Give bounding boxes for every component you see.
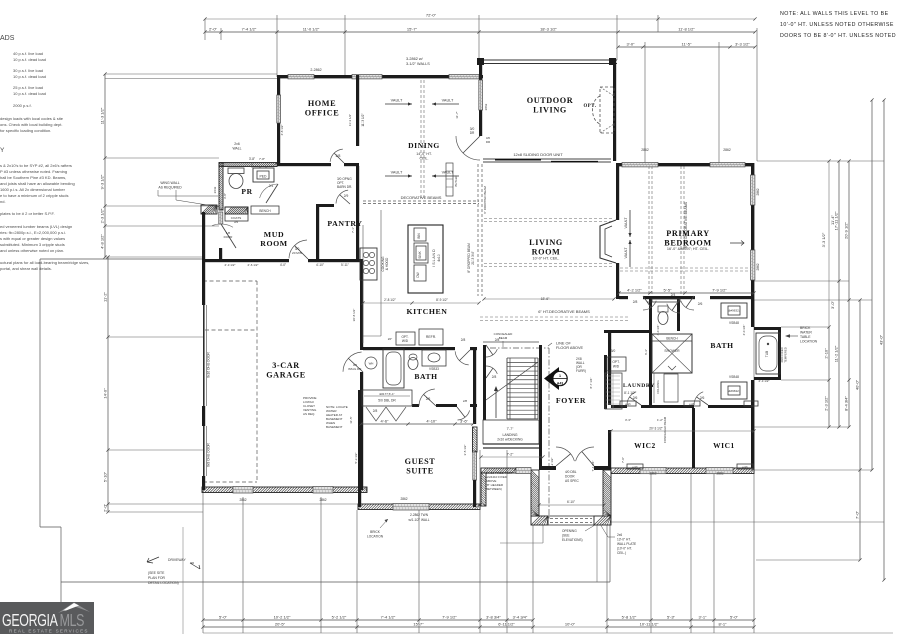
svg-text:2862: 2862 [723, 148, 731, 152]
svg-text:3'-0": 3'-0" [830, 300, 835, 309]
svg-text:72'-0": 72'-0" [426, 13, 437, 18]
svg-text:8'-4 3/4": 8'-4 3/4" [844, 396, 849, 411]
svg-text:KITCHEN: KITCHEN [406, 307, 447, 316]
svg-text:20'-5": 20'-5" [275, 622, 286, 627]
svg-text:2'-3 1/2": 2'-3 1/2" [225, 263, 236, 267]
svg-text:portal, and shear wall details: portal, and shear wall details. [0, 266, 52, 271]
svg-text:DINING: DINING [408, 141, 440, 150]
svg-text:LOCATION: LOCATION [367, 535, 384, 539]
svg-text:5'-0": 5'-0" [730, 615, 739, 620]
svg-text:7'-9 1/2": 7'-9 1/2" [712, 288, 727, 293]
svg-text:10'-11 1/2": 10'-11 1/2" [640, 622, 659, 627]
svg-text:(SEE SITE: (SEE SITE [148, 571, 165, 575]
svg-text:2'-3 1/2": 2'-3 1/2" [100, 208, 105, 223]
svg-text:DETAIL LOCATION): DETAIL LOCATION) [148, 581, 179, 585]
svg-text:2862: 2862 [400, 497, 407, 501]
svg-text:nd.: nd. [0, 199, 6, 204]
svg-text:8x8 OHG DOOR: 8x8 OHG DOOR [207, 442, 211, 466]
svg-text:A43: A43 [557, 382, 563, 386]
svg-text:LIVING: LIVING [533, 105, 567, 114]
svg-text:3/4: 3/4 [234, 220, 239, 224]
svg-text:ROOM: ROOM [532, 247, 561, 256]
svg-text:2/8: 2/8 [461, 338, 466, 342]
svg-text:for specific loading condition: for specific loading condition. [0, 128, 51, 133]
svg-text:substituted. Minimum 3 cripple: substituted. Minimum 3 cripple studs [0, 242, 65, 247]
svg-text:4'-2 1/2": 4'-2 1/2" [627, 288, 642, 293]
svg-text:15'-7": 15'-7" [407, 27, 418, 32]
svg-text:s with equal or greater design: s with equal or greater design values [0, 236, 65, 241]
svg-text:2-2862: 2-2862 [310, 68, 321, 72]
svg-text:5'-2 1/2": 5'-2 1/2" [332, 615, 347, 620]
svg-text:LINE OF: LINE OF [556, 342, 571, 346]
svg-text:4'-0": 4'-0" [280, 263, 286, 267]
svg-text:HOME: HOME [308, 99, 336, 108]
svg-text:40 p.s.f. live load: 40 p.s.f. live load [13, 51, 43, 56]
svg-text:8'-9 1/2": 8'-9 1/2" [436, 298, 448, 302]
svg-text:2/4: 2/4 [269, 184, 274, 188]
svg-text:BEAM: BEAM [499, 336, 508, 340]
svg-text:&#9632;: &#9632; [728, 309, 739, 313]
svg-text:7'-9 1/2": 7'-9 1/2" [442, 615, 457, 620]
svg-text:2/8: 2/8 [336, 154, 341, 158]
svg-text:ries: fb=2800p.s.i., E=2,000,: ries: fb=2800p.s.i., E=2,000,000 p.s.i. [0, 230, 66, 235]
svg-text:OFFICE: OFFICE [305, 108, 340, 117]
svg-text:AS REQ.: AS REQ. [303, 412, 315, 416]
svg-text:REFR.: REFR. [426, 335, 436, 339]
svg-text:FOLDING: FOLDING [656, 380, 660, 394]
svg-text:2'-10": 2'-10" [824, 348, 829, 359]
svg-text:3'-1": 3'-1" [699, 615, 708, 620]
svg-text:BIN: BIN [417, 233, 421, 239]
svg-text:s & 2x10's to be SYP #2, all 2: s & 2x10's to be SYP #2, all 2x6's rafte… [0, 163, 72, 168]
svg-text:5'-3": 5'-3" [667, 615, 676, 620]
svg-text:(10'-0" HT.: (10'-0" HT. [617, 547, 632, 551]
svg-text:FOYER: FOYER [556, 396, 586, 405]
svg-text:DR: DR [470, 131, 475, 135]
svg-text:25 p.s.f. live load: 25 p.s.f. live load [13, 85, 43, 90]
svg-text:13'-0" HT.: 13'-0" HT. [617, 538, 631, 542]
svg-text:VAULT: VAULT [442, 171, 454, 175]
svg-text:BENCH: BENCH [259, 209, 271, 213]
svg-text:2862: 2862 [649, 472, 656, 476]
svg-text:6'-10": 6'-10" [567, 500, 575, 504]
svg-text:SUITE: SUITE [406, 466, 434, 475]
svg-text:PED: PED [260, 175, 268, 179]
svg-text:8x16 OHG DOOR: 8x16 OHG DOOR [207, 352, 211, 378]
svg-text:FLOOR ABOVE: FLOOR ABOVE [556, 346, 583, 350]
svg-text:4'-6": 4'-6" [381, 419, 390, 424]
svg-text:2/6: 2/6 [698, 302, 703, 306]
svg-text:4'-0 3/4": 4'-0 3/4" [656, 325, 660, 336]
svg-text:WH: WH [369, 362, 374, 366]
svg-text:1: 1 [559, 374, 561, 378]
svg-text:VSB33: VSB33 [429, 367, 439, 371]
svg-text:VAULT: VAULT [391, 171, 403, 175]
svg-text:SHOWER: SHOWER [664, 349, 680, 353]
svg-text:40'-0": 40'-0" [855, 379, 860, 390]
svg-text:7'-4 1/2": 7'-4 1/2" [242, 27, 257, 32]
svg-text:11'-2 1/2": 11'-2 1/2" [834, 345, 839, 362]
svg-text:4x10: 4x10 [437, 254, 441, 261]
svg-text:LOCATION: LOCATION [800, 340, 818, 344]
svg-text:7'-4 3/4": 7'-4 3/4" [591, 461, 595, 472]
svg-text:CEIL.): CEIL.) [617, 551, 626, 555]
svg-text:5'-8 1/2": 5'-8 1/2" [622, 615, 637, 620]
svg-text:2-2862 TWN: 2-2862 TWN [410, 513, 429, 517]
svg-text:WIC2: WIC2 [634, 441, 656, 450]
svg-text:11'-0 1/2": 11'-0 1/2" [303, 27, 320, 32]
svg-text:5'-11": 5'-11" [341, 263, 349, 267]
svg-text:GARAGE: GARAGE [266, 370, 306, 379]
svg-text:2'-6 1/2": 2'-6 1/2" [248, 263, 259, 267]
svg-text:eq/h: eq/h [742, 465, 748, 469]
svg-text:2x6: 2x6 [234, 142, 240, 146]
svg-text:11'-3 1/2": 11'-3 1/2" [361, 113, 365, 126]
svg-text:11'-5": 11'-5" [349, 416, 353, 423]
svg-text:10 p.s.f. dead load: 10 p.s.f. dead load [13, 74, 46, 79]
svg-text:(SEE: (SEE [562, 534, 569, 538]
svg-text:ons. Check with local building: ons. Check with local building dept. [0, 122, 62, 127]
svg-text:BATH: BATH [710, 341, 733, 350]
svg-text:8" DROPPED BEAM: 8" DROPPED BEAM [467, 243, 471, 273]
svg-text:I S L A N D: I S L A N D [432, 249, 436, 267]
svg-text:FURR): FURR) [576, 369, 586, 373]
svg-text:LIVING: LIVING [529, 238, 563, 247]
svg-text:LAUNDRY: LAUNDRY [623, 383, 655, 389]
svg-text:11'-2": 11'-2" [103, 291, 108, 301]
svg-text:W/D: W/D [402, 339, 409, 343]
svg-text:7'-2": 7'-2" [507, 453, 515, 457]
svg-text:2/9: 2/9 [344, 194, 349, 198]
svg-text:and unless otherwise noted on: and unless otherwise noted on plan. [0, 248, 64, 253]
svg-text:AS REQUIRED: AS REQUIRED [158, 186, 182, 190]
svg-text:w/1-1/2" WALL: w/1-1/2" WALL [408, 518, 429, 522]
svg-text:9'-3 1/2": 9'-3 1/2" [100, 174, 105, 189]
svg-text:3'-0": 3'-0" [627, 42, 636, 47]
svg-text:43'-0": 43'-0" [879, 334, 884, 345]
svg-text:7'-8": 7'-8" [259, 157, 265, 161]
svg-text:ADS: ADS [0, 35, 15, 42]
svg-text:14'-0": 14'-0" [103, 388, 108, 399]
svg-text:10 p.s.f. dead load: 10 p.s.f. dead load [13, 57, 46, 62]
svg-text:4'-10": 4'-10" [426, 419, 437, 424]
svg-text:2x6: 2x6 [617, 533, 622, 537]
svg-text:3/0: 3/0 [647, 300, 652, 304]
svg-text:2862: 2862 [756, 188, 760, 195]
svg-text:20'-9 1/2": 20'-9 1/2" [844, 221, 849, 238]
svg-text:7'-0": 7'-0" [621, 457, 625, 463]
svg-text:OPT.: OPT. [583, 104, 596, 109]
svg-text:3-CAR: 3-CAR [272, 361, 300, 370]
svg-text:2'-0": 2'-0" [103, 503, 108, 512]
svg-text:2/6: 2/6 [633, 396, 638, 400]
svg-text:11'-4": 11'-4" [830, 214, 835, 224]
svg-text:30 p.s.f. live load: 30 p.s.f. live load [13, 68, 43, 73]
svg-text:BARN DR.: BARN DR. [337, 185, 352, 189]
svg-text:VSB48: VSB48 [729, 321, 739, 325]
svg-text:NOTE: ALL WALLS THIS LEVEL: NOTE: ALL WALLS THIS LEVEL TO BE [780, 11, 889, 17]
svg-text:6" DROPPED BEAM: 6" DROPPED BEAM [483, 186, 487, 214]
svg-text:CEIL.: CEIL. [420, 157, 429, 161]
svg-text:hall be Southern Pine #3 KD. B: hall be Southern Pine #3 KD. Beams, [0, 175, 66, 180]
svg-text:8'-7 1/4": 8'-7 1/4" [589, 378, 593, 389]
svg-text:3'-8 3/4": 3'-8 3/4" [486, 615, 501, 620]
svg-text:3'-3 1/2": 3'-3 1/2" [735, 42, 750, 47]
svg-text:CONCEALED BEAM: CONCEALED BEAM [663, 416, 667, 443]
svg-text:PANTRY: PANTRY [327, 219, 362, 228]
svg-text:W/D: W/D [613, 365, 620, 369]
svg-text:2'-3 1/2": 2'-3 1/2" [824, 396, 829, 411]
svg-text:11'-5": 11'-5" [682, 42, 692, 47]
svg-text:2'-3 1/2": 2'-3 1/2" [759, 379, 770, 383]
svg-text:6" HT.DECORATIVE BEAMS: 6" HT.DECORATIVE BEAMS [538, 309, 590, 314]
svg-text:7'-7": 7'-7" [507, 427, 515, 431]
svg-text:BRICK: BRICK [800, 326, 811, 330]
svg-text:INSUL DR.: INSUL DR. [348, 367, 362, 371]
svg-text:6'-3": 6'-3" [644, 349, 648, 355]
svg-text:2'-0": 2'-0" [209, 27, 218, 32]
svg-text:8'-1 1/2": 8'-1 1/2" [624, 391, 636, 395]
svg-text:e to have a minimum of 2 cripp: e to have a minimum of 2 cripple studs [0, 193, 68, 198]
svg-text:VAULT: VAULT [624, 247, 628, 259]
svg-text:ELEVATIONS): ELEVATIONS) [562, 538, 583, 542]
svg-text:TABLE: TABLE [800, 335, 811, 339]
svg-text:12x8 SLIDING DOOR UNIT: 12x8 SLIDING DOOR UNIT [513, 152, 563, 157]
svg-text:ROOM: ROOM [260, 239, 288, 248]
svg-text:3'-3": 3'-3" [625, 418, 631, 422]
svg-text:7'-1": 7'-1" [351, 227, 355, 233]
svg-text:PR: PR [241, 187, 252, 196]
svg-text:WATER: WATER [800, 331, 812, 335]
svg-text:& HOOD: & HOOD [385, 257, 389, 270]
svg-text:3'-8": 3'-8" [249, 157, 255, 161]
svg-text:5'-10": 5'-10" [103, 471, 108, 482]
svg-text:OUTDOOR: OUTDOOR [527, 96, 574, 105]
svg-text:5'-5": 5'-5" [664, 288, 673, 293]
svg-text:TEMPERED: TEMPERED [784, 347, 788, 363]
svg-text:PRIMARY: PRIMARY [666, 229, 709, 238]
svg-text:&#177;6'-1": &#177;6'-1" [379, 392, 394, 396]
svg-text:OPENING: OPENING [562, 529, 577, 533]
svg-text:uctural plans for all load-bea: uctural plans for all load-bearing beam/… [0, 260, 89, 265]
svg-text:11'-3 1/2": 11'-3 1/2" [348, 114, 352, 126]
svg-text:1600 p.i.s. All 2x dimensional: 1600 p.i.s. All 2x dimensional lumber [0, 187, 66, 192]
svg-text:Y: Y [0, 147, 5, 154]
svg-text:3-1/2" WALLS: 3-1/2" WALLS [406, 62, 430, 66]
svg-text:WING WALL: WING WALL [160, 181, 179, 185]
svg-text:PLAN FOR: PLAN FOR [148, 576, 166, 580]
svg-text:WALL: WALL [232, 147, 241, 151]
svg-text:4'-8 1/2": 4'-8 1/2" [280, 125, 284, 136]
svg-text:REAL ESTATE SERVICES: REAL ESTATE SERVICES [9, 629, 89, 634]
svg-text:10'-0" HT. CEIL.: 10'-0" HT. CEIL. [533, 257, 560, 261]
svg-text:2862: 2862 [641, 148, 649, 152]
svg-text:OPT.: OPT. [612, 360, 619, 364]
svg-text:10 p.s.f. dead load: 10 p.s.f. dead load [13, 91, 46, 96]
svg-text:20": 20" [388, 337, 392, 341]
svg-text:DOOR: DOOR [565, 475, 575, 479]
svg-text:20'-3 1/2": 20'-3 1/2" [649, 427, 662, 431]
svg-text:30'-8 1/2": 30'-8 1/2" [352, 309, 356, 322]
svg-text:WALL PLATE: WALL PLATE [617, 542, 636, 546]
svg-text:2862: 2862 [716, 472, 723, 476]
svg-text:11'-7": 11'-7" [455, 111, 459, 118]
svg-text:DOOR: DOOR [224, 235, 233, 239]
svg-text:3/0: 3/0 [611, 349, 616, 353]
svg-text:5'-3 1/2": 5'-3 1/2" [354, 453, 358, 464]
svg-text:4/0 DBL: 4/0 DBL [565, 470, 577, 474]
svg-text:design loads with local codes: design loads with local codes & site [0, 116, 64, 121]
svg-text:P #3 unless otherwise noted. F: P #3 unless otherwise noted. Framing [0, 169, 67, 174]
svg-text:3'-5 1/2": 3'-5 1/2" [463, 445, 467, 456]
svg-text:2/8: 2/8 [463, 399, 468, 403]
svg-text:2/8: 2/8 [633, 300, 638, 304]
svg-text:3-2862 w/: 3-2862 w/ [406, 57, 424, 61]
svg-text:BASEMENT: BASEMENT [326, 425, 343, 429]
svg-text:GUEST: GUEST [405, 457, 436, 466]
svg-text:2/8: 2/8 [492, 375, 497, 379]
svg-text:2/8: 2/8 [373, 409, 378, 413]
svg-text:14'-0" HT.: 14'-0" HT. [416, 152, 432, 156]
svg-text:2862: 2862 [484, 103, 488, 110]
svg-text:2/6: 2/6 [700, 396, 705, 400]
svg-text:2/6: 2/6 [426, 397, 431, 401]
svg-text:MUD: MUD [264, 230, 284, 239]
svg-text:BETWEEN): BETWEEN) [486, 487, 502, 491]
svg-text:BRICK: BRICK [370, 530, 381, 534]
svg-text:2862: 2862 [756, 263, 760, 270]
svg-text:7'-0": 7'-0" [855, 510, 860, 519]
svg-text:&#9632;: &#9632; [728, 389, 739, 393]
svg-text:TUB: TUB [765, 351, 769, 357]
svg-text:BATH: BATH [414, 372, 437, 381]
svg-text:BENCH: BENCH [666, 337, 678, 341]
svg-text:3'-8": 3'-8" [223, 193, 227, 199]
svg-text:ed veneered lumber beams (LVL): ed veneered lumber beams (LVL) design [0, 224, 72, 229]
svg-text:2'-8 1/2": 2'-8 1/2" [384, 298, 396, 302]
svg-text:11'-8 1/2": 11'-8 1/2" [678, 27, 695, 32]
svg-text:VAULT: VAULT [442, 99, 454, 103]
svg-text:2862: 2862 [239, 498, 246, 502]
svg-text:2862: 2862 [319, 498, 326, 502]
svg-text:SINK: SINK [418, 250, 422, 258]
svg-text:WIC1: WIC1 [713, 441, 735, 450]
svg-text:LANDING: LANDING [502, 433, 517, 437]
svg-text:DOORS TO BE 8'-0" HT. UNL: DOORS TO BE 8'-0" HT. UNLESS NOTED [780, 33, 896, 39]
svg-text:DW: DW [416, 272, 420, 277]
svg-text:AS SPEC: AS SPEC [565, 479, 580, 483]
svg-text:3'-6": 3'-6" [460, 419, 469, 424]
svg-text:2/4: 2/4 [671, 293, 676, 297]
svg-text:8'-1": 8'-1" [719, 622, 728, 627]
svg-text:2642: 2642 [213, 186, 217, 193]
svg-text:VAULT: VAULT [624, 217, 628, 229]
svg-text:16'-0" &#8597; HT. CEIL.: 16'-0" &#8597; HT. CEIL. [667, 247, 709, 251]
svg-text:4'-2 1/2": 4'-2 1/2" [550, 458, 554, 469]
svg-text:eq/h: eq/h [689, 402, 695, 406]
svg-text:plates to be # 2 or better S.P: plates to be # 2 or better S.P.F. [0, 211, 55, 216]
svg-text:DRIVEWAY: DRIVEWAY [168, 558, 186, 562]
svg-text:2000 p.s.f.: 2000 p.s.f. [13, 103, 32, 108]
svg-text:18'-3 1/2": 18'-3 1/2" [540, 27, 557, 32]
svg-text:4'-10": 4'-10" [316, 263, 324, 267]
svg-text:10'-2 1/2": 10'-2 1/2" [274, 615, 291, 620]
svg-text:4'-8 1/2": 4'-8 1/2" [100, 234, 105, 249]
svg-text:2x10 w/DECKING: 2x10 w/DECKING [497, 438, 523, 442]
svg-text:20 MIN: 20 MIN [292, 251, 302, 255]
svg-text:11'-3 1/2": 11'-3 1/2" [100, 107, 105, 124]
svg-text:21'-3 3/4": 21'-3 3/4" [471, 251, 475, 264]
svg-text:3'-4 3/4": 3'-4 3/4" [513, 615, 528, 620]
svg-text:eq/h: eq/h [632, 465, 638, 469]
svg-text:3'-3 1/2": 3'-3 1/2" [821, 232, 826, 247]
svg-text:10'-0" HT. UNLESS NOTED OT: 10'-0" HT. UNLESS NOTED OTHERWISE [780, 22, 894, 28]
svg-text:eq/h: eq/h [625, 402, 631, 406]
svg-text:5/0 DBL DR: 5/0 DBL DR [378, 399, 396, 403]
svg-text:VAULT: VAULT [391, 99, 403, 103]
svg-text:and joists shall have an allow: and joists shall have an allowable bendi… [0, 181, 75, 186]
svg-text:10'-0": 10'-0" [565, 622, 576, 627]
svg-text:7'-4 1/2": 7'-4 1/2" [381, 615, 396, 620]
svg-text:VSB48: VSB48 [729, 375, 739, 379]
svg-text:5'-0": 5'-0" [219, 615, 228, 620]
svg-text:4'-0 3/4": 4'-0 3/4" [742, 325, 746, 336]
svg-text:BUTLER: BUTLER [454, 175, 458, 186]
